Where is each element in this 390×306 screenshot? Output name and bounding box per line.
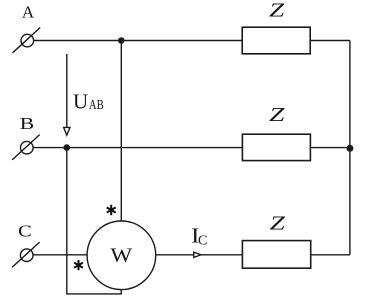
- resistor Z1: [242, 0, 310, 54]
- wire B junction down and to wattmeter bottom: [67, 148, 121, 294]
- wire phase A: [34, 40, 242, 42]
- wire right bus: [349, 41, 351, 255]
- svg-text:Z: Z: [269, 0, 285, 21]
- terminal C: [12, 242, 40, 267]
- wire phase C left: [33, 254, 87, 256]
- svg-text:C: C: [198, 233, 207, 248]
- svg-text:U: U: [73, 89, 88, 113]
- svg-text:Z: Z: [269, 104, 285, 126]
- wire Z1 to right bus: [310, 40, 350, 42]
- arrow U_AB: [64, 54, 70, 135]
- label U_AB: [73, 89, 104, 113]
- wire Z3 to right bus: [311, 254, 350, 256]
- wattmeter U1: [87, 221, 156, 290]
- terminal A: [13, 28, 41, 53]
- label I_C: [191, 224, 207, 249]
- node junction B: [64, 144, 71, 151]
- polarity mark left asterisk: [74, 260, 83, 270]
- svg-text:Z: Z: [270, 212, 286, 234]
- wire phase C right with current arrow: [156, 252, 243, 257]
- wire Z2 to right bus: [310, 147, 350, 149]
- wire A junction down to wattmeter top: [120, 41, 122, 222]
- resistor Z2: [242, 104, 310, 161]
- node junction A: [118, 37, 125, 44]
- wire phase B: [33, 147, 242, 149]
- resistor Z3: [242, 212, 310, 268]
- polarity mark top asterisk: [107, 205, 116, 215]
- node junction right bus: [346, 145, 353, 152]
- svg-text:C: C: [18, 221, 32, 240]
- svg-text:B: B: [20, 114, 35, 133]
- terminal B: [12, 135, 40, 160]
- svg-text:AB: AB: [89, 98, 104, 113]
- svg-text:W: W: [110, 245, 132, 267]
- svg-text:A: A: [22, 2, 35, 21]
